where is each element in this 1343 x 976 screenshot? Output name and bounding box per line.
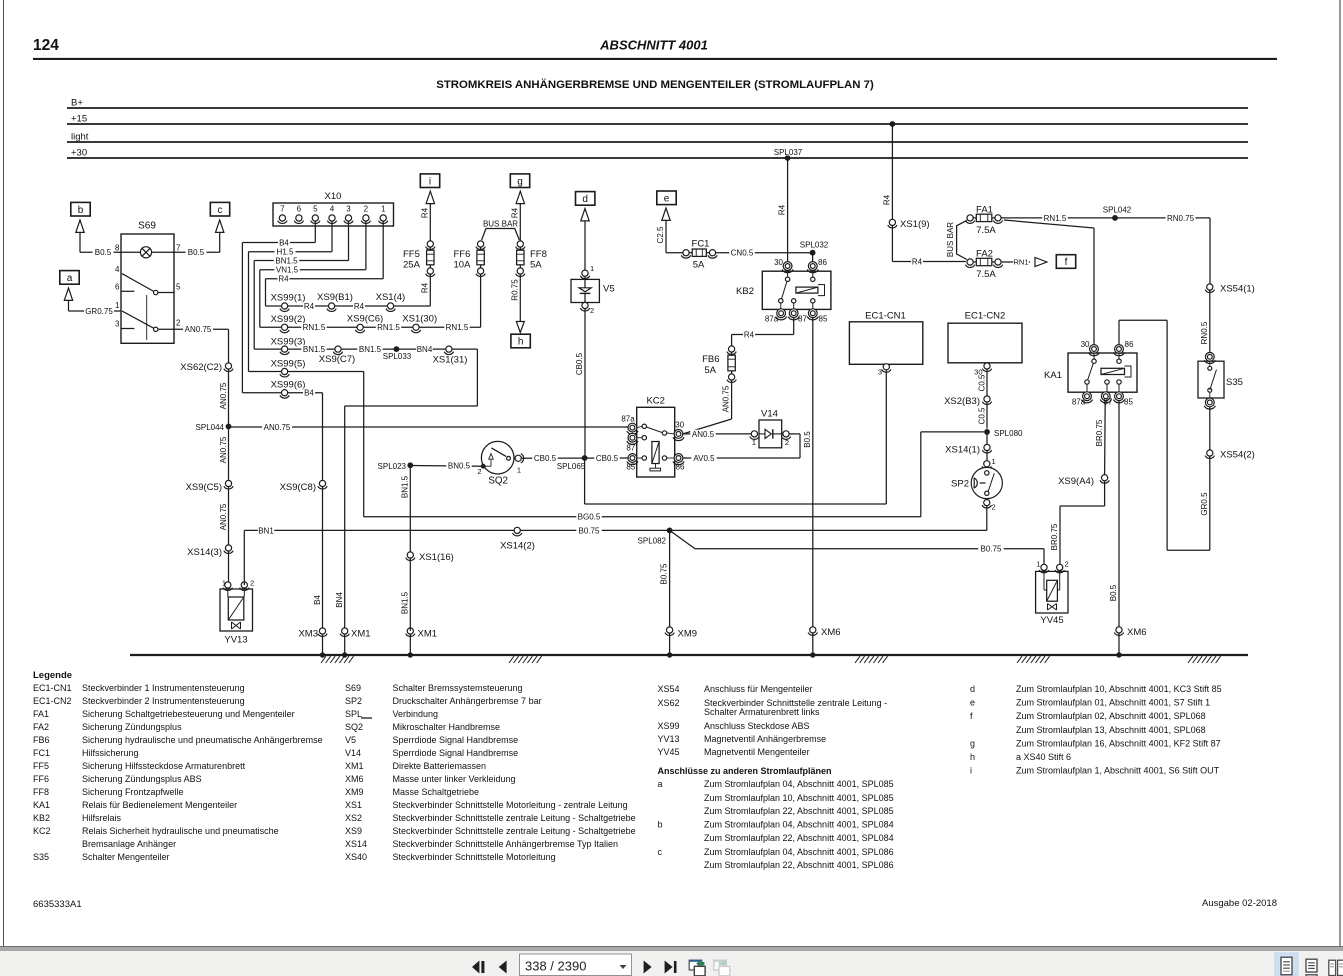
svg-text:BN0.5: BN0.5: [448, 461, 471, 470]
svg-text:H1.5: H1.5: [277, 248, 294, 257]
svg-text:XS54(1): XS54(1): [1220, 284, 1255, 295]
svg-text:Steckverbinder 2 Instrumentens: Steckverbinder 2 Instrumentensteuerung: [82, 696, 245, 706]
svg-text:b: b: [658, 820, 663, 830]
svg-text:ABSCHNITT 4001: ABSCHNITT 4001: [599, 38, 708, 53]
svg-text:85: 85: [819, 315, 828, 324]
svg-text:XS1(16): XS1(16): [419, 552, 454, 563]
svg-text:STROMKREIS ANHÄNGERBREMSE UND: STROMKREIS ANHÄNGERBREMSE UND MENGENTEIL…: [436, 78, 874, 91]
svg-text:Hilfsrelais: Hilfsrelais: [82, 813, 122, 823]
svg-text:87a: 87a: [621, 415, 635, 424]
svg-text:XS14(1): XS14(1): [945, 445, 980, 456]
svg-text:Zum Stromlaufplan 04, Abschnit: Zum Stromlaufplan 04, Abschnitt 4001, SP…: [704, 847, 894, 857]
svg-text:GR0.5: GR0.5: [1200, 492, 1209, 516]
svg-text:RN1.5: RN1.5: [1044, 214, 1067, 223]
svg-text:BUS BAR: BUS BAR: [946, 222, 955, 257]
svg-text:XS9: XS9: [345, 826, 362, 836]
svg-text:VN1.5: VN1.5: [276, 266, 299, 275]
svg-text:RN1.5: RN1.5: [446, 323, 469, 332]
svg-text:Schalter Bremssystemsteuerung: Schalter Bremssystemsteuerung: [393, 683, 523, 693]
svg-text:XM6: XM6: [821, 627, 841, 638]
svg-text:XS1(9): XS1(9): [900, 219, 930, 230]
svg-text:C2.5: C2.5: [656, 226, 665, 243]
svg-text:Zum Stromlaufplan 1, Abschnitt: Zum Stromlaufplan 1, Abschnitt 4001, S6 …: [1016, 766, 1220, 776]
svg-text:Schalter Mengenteiler: Schalter Mengenteiler: [82, 852, 170, 862]
svg-text:XS99(1): XS99(1): [271, 293, 306, 304]
svg-text:SP2: SP2: [951, 479, 969, 490]
svg-text:87a: 87a: [1072, 397, 1086, 406]
svg-text:Steckverbinder Schnittstelle A: Steckverbinder Schnittstelle Anhängerbre…: [393, 839, 618, 849]
svg-text:SPL042: SPL042: [1103, 205, 1132, 214]
svg-text:Direkte Batteriemassen: Direkte Batteriemassen: [393, 761, 487, 771]
svg-text:2: 2: [785, 438, 789, 447]
svg-text:g: g: [517, 176, 523, 187]
svg-text:2: 2: [250, 579, 254, 588]
svg-text:XS14: XS14: [345, 839, 367, 849]
svg-text:AN0.75: AN0.75: [219, 382, 228, 409]
svg-text:BN1.5: BN1.5: [303, 345, 326, 354]
svg-text:87: 87: [798, 315, 807, 324]
svg-text:EC1-CN2: EC1-CN2: [965, 310, 1006, 321]
svg-text:Steckverbinder 1 Instrumentens: Steckverbinder 1 Instrumentensteuerung: [82, 683, 245, 693]
svg-text:KB2: KB2: [33, 813, 50, 823]
svg-text:Masse Schaltgetriebe: Masse Schaltgetriebe: [393, 787, 480, 797]
svg-text:d: d: [582, 194, 588, 205]
svg-text:30: 30: [1081, 340, 1090, 349]
svg-text:XS2(B3): XS2(B3): [944, 396, 980, 407]
svg-text:R4: R4: [912, 257, 923, 266]
svg-text:SPL033: SPL033: [383, 352, 412, 361]
svg-text:5A: 5A: [693, 260, 705, 271]
svg-text:SPL032: SPL032: [800, 241, 829, 250]
svg-text:R4: R4: [778, 204, 787, 215]
svg-text:B0.5: B0.5: [188, 248, 205, 257]
svg-text:85: 85: [626, 462, 635, 471]
svg-text:FF6: FF6: [33, 774, 49, 784]
svg-text:XS99(6): XS99(6): [271, 379, 306, 390]
svg-text:Legende: Legende: [33, 670, 72, 681]
svg-text:7: 7: [280, 205, 285, 214]
svg-text:Schalter Armaturenbrett links: Schalter Armaturenbrett links: [704, 707, 820, 717]
svg-text:3: 3: [115, 320, 120, 329]
svg-text:3: 3: [346, 205, 351, 214]
svg-text:g: g: [970, 738, 975, 748]
svg-text:S35: S35: [1226, 377, 1243, 388]
svg-text:BN1.5: BN1.5: [401, 591, 410, 614]
svg-text:CB0.5: CB0.5: [596, 454, 619, 463]
svg-text:c: c: [218, 205, 223, 216]
svg-text:SQ2: SQ2: [488, 475, 508, 486]
svg-text:5A: 5A: [530, 260, 542, 271]
svg-text:Steckverbinder Schnittstelle M: Steckverbinder Schnittstelle Motorleitun…: [393, 800, 628, 810]
svg-text:Ausgabe 02-2018: Ausgabe 02-2018: [1202, 898, 1277, 909]
svg-text:BN4: BN4: [417, 345, 433, 354]
svg-text:CB0.5: CB0.5: [575, 352, 584, 375]
svg-text:BN1.5: BN1.5: [359, 345, 382, 354]
svg-text:XM1: XM1: [418, 629, 438, 640]
svg-text:1: 1: [590, 264, 594, 273]
svg-text:RN0.5: RN0.5: [1200, 321, 1209, 344]
svg-text:Anschluss für Mengenteiler: Anschluss für Mengenteiler: [704, 684, 813, 694]
svg-text:AV0.5: AV0.5: [693, 454, 715, 463]
svg-text:V14: V14: [761, 409, 778, 420]
svg-text:4: 4: [115, 265, 120, 274]
svg-text:e: e: [970, 698, 975, 708]
svg-text:2: 2: [1065, 559, 1069, 568]
svg-text:FC1: FC1: [692, 238, 710, 249]
svg-text:Relais für Bedienelement Menge: Relais für Bedienelement Mengenteiler: [82, 800, 237, 810]
svg-text:KB2: KB2: [736, 286, 754, 297]
svg-text:Steckverbinder Schnittstelle z: Steckverbinder Schnittstelle zentrale Le…: [393, 826, 636, 836]
svg-text:XS9(C5): XS9(C5): [186, 482, 222, 493]
svg-text:Druckschalter Anhängerbremse 7: Druckschalter Anhängerbremse 7 bar: [393, 696, 542, 706]
svg-text:e: e: [664, 193, 670, 204]
svg-text:d: d: [970, 684, 975, 694]
svg-text:h: h: [518, 337, 524, 348]
svg-text:V5: V5: [603, 284, 615, 295]
svg-text:CN0.5: CN0.5: [731, 249, 754, 258]
svg-text:V5: V5: [345, 735, 356, 745]
svg-text:B4: B4: [304, 389, 314, 398]
svg-text:Relais Sicherheit hydraulische: Relais Sicherheit hydraulische und pneum…: [82, 826, 279, 836]
svg-text:B0.75: B0.75: [579, 526, 600, 535]
svg-text:30: 30: [675, 420, 684, 429]
svg-text:6635333A1: 6635333A1: [33, 899, 82, 910]
svg-text:+15: +15: [71, 114, 87, 125]
svg-text:b: b: [78, 205, 84, 216]
svg-text:R4: R4: [420, 282, 429, 293]
svg-text:5: 5: [176, 283, 181, 292]
svg-text:S69: S69: [138, 221, 156, 232]
svg-text:RN1.5: RN1.5: [377, 323, 400, 332]
svg-text:Zum Stromlaufplan 01, Abschnit: Zum Stromlaufplan 01, Abschnitt 4001, S7…: [1016, 698, 1210, 708]
svg-text:YV45: YV45: [658, 747, 680, 757]
svg-text:SPL: SPL: [345, 709, 362, 719]
svg-text:BR0.75: BR0.75: [1050, 523, 1059, 550]
svg-text:FF5: FF5: [33, 761, 49, 771]
svg-text:SPL065: SPL065: [557, 462, 586, 471]
svg-text:SPL023: SPL023: [378, 462, 407, 471]
svg-text:GR0.75: GR0.75: [85, 307, 113, 316]
svg-text:XM6: XM6: [345, 774, 364, 784]
svg-text:R4: R4: [278, 275, 289, 284]
svg-text:Verbindung: Verbindung: [393, 709, 439, 719]
svg-text:f: f: [970, 711, 973, 721]
svg-text:FA2: FA2: [33, 722, 49, 732]
svg-text:+30: +30: [71, 148, 87, 159]
svg-text:Magnetventil Anhängerbremse: Magnetventil Anhängerbremse: [704, 734, 826, 744]
svg-text:Sperrdiode Signal Handbremse: Sperrdiode Signal Handbremse: [393, 748, 519, 758]
svg-text:FF6: FF6: [454, 249, 471, 260]
svg-text:i: i: [429, 176, 431, 187]
svg-text:2: 2: [176, 319, 181, 328]
svg-text:a: a: [658, 779, 663, 789]
svg-text:Sicherung Frontzapfwelle: Sicherung Frontzapfwelle: [82, 787, 184, 797]
svg-text:EC1-CN2: EC1-CN2: [33, 696, 72, 706]
svg-text:XS1: XS1: [345, 800, 362, 810]
svg-text:BG0.5: BG0.5: [578, 513, 601, 522]
svg-text:1: 1: [1036, 559, 1040, 568]
svg-text:SP2: SP2: [345, 696, 362, 706]
svg-text:XM6: XM6: [1127, 627, 1147, 638]
svg-text:R4: R4: [354, 302, 365, 311]
svg-text:2: 2: [590, 306, 594, 315]
svg-text:XS1(31): XS1(31): [433, 354, 468, 365]
svg-text:6: 6: [297, 205, 302, 214]
svg-text:KC2: KC2: [33, 826, 51, 836]
svg-text:Zum Stromlaufplan 22, Abschnit: Zum Stromlaufplan 22, Abschnitt 4001, SP…: [704, 860, 894, 870]
svg-text:1: 1: [517, 466, 521, 475]
svg-text:3: 3: [878, 367, 882, 376]
svg-text:BR0.75: BR0.75: [1095, 419, 1104, 446]
svg-text:85: 85: [1124, 397, 1133, 406]
svg-text:Zum Stromlaufplan 22, Abschnit: Zum Stromlaufplan 22, Abschnitt 4001, SP…: [704, 833, 894, 843]
svg-text:B4: B4: [279, 238, 289, 247]
svg-text:XS99(3): XS99(3): [271, 337, 306, 348]
svg-text:5A: 5A: [704, 365, 716, 376]
svg-text:KA1: KA1: [1044, 370, 1062, 381]
svg-text:EC1-CN1: EC1-CN1: [865, 310, 906, 321]
svg-text:Zum Stromlaufplan 22, Abschnit: Zum Stromlaufplan 22, Abschnitt 4001, SP…: [704, 806, 894, 816]
svg-text:XS40: XS40: [345, 852, 367, 862]
svg-text:30: 30: [774, 258, 783, 267]
svg-text:8: 8: [115, 244, 120, 253]
svg-text:XM9: XM9: [345, 787, 364, 797]
svg-text:YV13: YV13: [658, 734, 680, 744]
svg-text:Steckverbinder Schnittstelle M: Steckverbinder Schnittstelle Motorleitun…: [393, 852, 556, 862]
svg-text:R4: R4: [420, 207, 429, 218]
svg-text:S35: S35: [33, 852, 49, 862]
svg-text:Mikroschalter Handbremse: Mikroschalter Handbremse: [393, 722, 501, 732]
svg-text:XS99: XS99: [658, 721, 680, 731]
svg-text:FF8: FF8: [33, 787, 49, 797]
svg-text:XS14(3): XS14(3): [187, 547, 222, 558]
svg-text:a XS40 Stift 6: a XS40 Stift 6: [1016, 752, 1071, 762]
svg-text:c: c: [658, 847, 663, 857]
svg-text:KC2: KC2: [646, 396, 664, 407]
svg-text:7.5A: 7.5A: [976, 225, 996, 236]
svg-text:FC1: FC1: [33, 748, 50, 758]
svg-text:a: a: [67, 273, 73, 284]
svg-text:B0.5: B0.5: [95, 248, 112, 257]
svg-text:XS2: XS2: [345, 813, 362, 823]
svg-text:XS14(2): XS14(2): [500, 541, 535, 552]
svg-text:R0.75: R0.75: [510, 279, 519, 301]
svg-text:XS54: XS54: [658, 684, 680, 694]
svg-text:SPL044: SPL044: [196, 423, 225, 432]
svg-text:R4: R4: [510, 207, 519, 218]
svg-text:7.5A: 7.5A: [976, 269, 996, 280]
svg-text:7: 7: [176, 244, 181, 253]
svg-text:BN1.5: BN1.5: [275, 256, 298, 265]
svg-text:SPL080: SPL080: [994, 429, 1023, 438]
svg-text:B+: B+: [71, 98, 83, 109]
svg-text:Zum Stromlaufplan 04, Abschnit: Zum Stromlaufplan 04, Abschnitt 4001, SP…: [704, 820, 894, 830]
svg-text:XS99(2): XS99(2): [271, 314, 306, 325]
svg-text:XM3: XM3: [298, 629, 318, 640]
svg-text:FA1: FA1: [33, 709, 49, 719]
svg-text:Zum Stromlaufplan 16, Abschnit: Zum Stromlaufplan 16, Abschnitt 4001, KF…: [1016, 738, 1221, 748]
svg-text:EC1-CN1: EC1-CN1: [33, 683, 72, 693]
svg-text:YV13: YV13: [224, 635, 247, 646]
svg-text:R4: R4: [744, 330, 755, 339]
svg-text:V14: V14: [345, 748, 361, 758]
svg-text:FB6: FB6: [702, 354, 719, 365]
svg-text:6: 6: [115, 283, 120, 292]
svg-text:AN0.75: AN0.75: [219, 436, 228, 463]
svg-text:Zum Stromlaufplan 10, Abschnit: Zum Stromlaufplan 10, Abschnitt 4001, KC…: [1016, 684, 1222, 694]
svg-text:Zum Stromlaufplan 04, Abschnit: Zum Stromlaufplan 04, Abschnitt 4001, SP…: [704, 779, 894, 789]
svg-text:Sicherung Hilfssteckdose Armat: Sicherung Hilfssteckdose Armaturenbrett: [82, 761, 246, 771]
svg-text:X10: X10: [325, 191, 342, 202]
svg-text:XM1: XM1: [351, 629, 371, 640]
svg-text:Anschlüsse zu anderen Stromlau: Anschlüsse zu anderen Stromlaufplänen: [658, 766, 832, 776]
svg-text:CB0.5: CB0.5: [534, 454, 557, 463]
svg-text:1: 1: [381, 205, 386, 214]
svg-text:Zum Stromlaufplan 02, Abschnit: Zum Stromlaufplan 02, Abschnitt 4001, SP…: [1016, 711, 1206, 721]
svg-text:XS9(C8): XS9(C8): [280, 482, 316, 493]
svg-text:86: 86: [676, 462, 685, 471]
svg-text:C0.5: C0.5: [977, 407, 986, 424]
svg-text:XS62: XS62: [658, 698, 680, 708]
svg-text:Sicherung Schaltgetriebesteuer: Sicherung Schaltgetriebesteuerung und Me…: [82, 709, 295, 719]
svg-text:Zum Stromlaufplan 13, Abschnit: Zum Stromlaufplan 13, Abschnitt 4001, SP…: [1016, 725, 1206, 735]
svg-text:R4: R4: [882, 194, 891, 205]
svg-text:4: 4: [330, 205, 335, 214]
svg-text:AN0.5: AN0.5: [692, 430, 715, 439]
svg-text:RN1: RN1: [1013, 258, 1028, 267]
svg-text:10A: 10A: [454, 260, 472, 271]
svg-text:86: 86: [818, 258, 827, 267]
svg-text:XS9(C7): XS9(C7): [319, 354, 355, 365]
svg-text:h: h: [970, 752, 975, 762]
svg-text:FB6: FB6: [33, 735, 50, 745]
svg-text:XS99(5): XS99(5): [271, 359, 306, 370]
svg-text:Magnetventil Mengenteiler: Magnetventil Mengenteiler: [704, 747, 810, 757]
svg-text:XS9(B1): XS9(B1): [317, 292, 353, 303]
svg-text:XS9(A4): XS9(A4): [1058, 476, 1094, 487]
svg-text:S69: S69: [345, 683, 361, 693]
svg-text:KA1: KA1: [33, 800, 50, 810]
svg-text:1: 1: [752, 438, 756, 447]
svg-text:5: 5: [313, 205, 318, 214]
svg-text:AN0.75: AN0.75: [722, 385, 731, 412]
svg-text:Hilfssicherung: Hilfssicherung: [82, 748, 139, 758]
svg-text:SQ2: SQ2: [345, 722, 363, 732]
svg-text:C0.5: C0.5: [977, 374, 986, 391]
svg-text:XM9: XM9: [678, 629, 698, 640]
svg-text:86: 86: [1125, 340, 1134, 349]
svg-text:light: light: [71, 132, 89, 143]
svg-text:B0.75: B0.75: [981, 545, 1002, 554]
svg-text:AN0.75: AN0.75: [185, 325, 212, 334]
svg-text:2: 2: [477, 467, 481, 476]
svg-text:87a: 87a: [765, 315, 779, 324]
svg-text:B0.5: B0.5: [1109, 584, 1118, 601]
svg-text:FF5: FF5: [403, 249, 420, 260]
svg-text:BUS BAR: BUS BAR: [483, 220, 518, 229]
svg-text:i: i: [970, 766, 972, 776]
svg-text:R4: R4: [304, 302, 315, 311]
svg-text:XS1(30): XS1(30): [402, 314, 437, 325]
svg-text:XS54(2): XS54(2): [1220, 450, 1255, 461]
svg-text:Zum Stromlaufplan 10, Abschnit: Zum Stromlaufplan 10, Abschnitt 4001, SP…: [704, 793, 894, 803]
svg-text:XS62(C2): XS62(C2): [180, 362, 222, 373]
svg-text:FF8: FF8: [530, 249, 547, 260]
svg-text:BN1.5: BN1.5: [401, 475, 410, 498]
svg-text:BN4: BN4: [335, 592, 344, 608]
svg-text:2: 2: [992, 503, 996, 512]
svg-text:BN1: BN1: [258, 526, 274, 535]
svg-text:AN0.75: AN0.75: [264, 423, 291, 432]
svg-text:RN1.5: RN1.5: [303, 323, 326, 332]
svg-text:SPL037: SPL037: [774, 148, 803, 157]
svg-text:XS1(4): XS1(4): [376, 292, 406, 303]
svg-text:1: 1: [992, 457, 996, 466]
svg-text:Steckverbinder Schnittstelle z: Steckverbinder Schnittstelle zentrale Le…: [393, 813, 636, 823]
svg-text:f: f: [1065, 257, 1068, 268]
svg-text:Masse unter linker Verkleidung: Masse unter linker Verkleidung: [393, 774, 516, 784]
svg-text:AN0.75: AN0.75: [219, 503, 228, 530]
svg-text:Sperrdiode Signal Handbremse: Sperrdiode Signal Handbremse: [393, 735, 519, 745]
svg-text:Bremsanlage Anhänger: Bremsanlage Anhänger: [82, 839, 176, 849]
svg-text:Sicherung Zündungsplus: Sicherung Zündungsplus: [82, 722, 182, 732]
svg-text:2: 2: [364, 205, 369, 214]
svg-text:YV45: YV45: [1040, 615, 1063, 626]
svg-text:B0.75: B0.75: [660, 563, 669, 584]
svg-text:B4: B4: [313, 595, 322, 605]
svg-text:338 / 2390: 338 / 2390: [525, 959, 586, 974]
svg-text:Sicherung hydraulische und pne: Sicherung hydraulische und pneumatische …: [82, 735, 323, 745]
svg-text:1: 1: [115, 301, 120, 310]
svg-text:124: 124: [33, 37, 59, 54]
svg-text:B0.5: B0.5: [803, 431, 812, 448]
svg-text:25A: 25A: [403, 260, 421, 271]
svg-text:XM1: XM1: [345, 761, 364, 771]
svg-text:RN0.75: RN0.75: [1167, 214, 1195, 223]
svg-text:Sicherung Zündungsplus ABS: Sicherung Zündungsplus ABS: [82, 774, 202, 784]
svg-text:Anschluss Steckdose ABS: Anschluss Steckdose ABS: [704, 721, 810, 731]
svg-text:SPL082: SPL082: [638, 537, 667, 546]
